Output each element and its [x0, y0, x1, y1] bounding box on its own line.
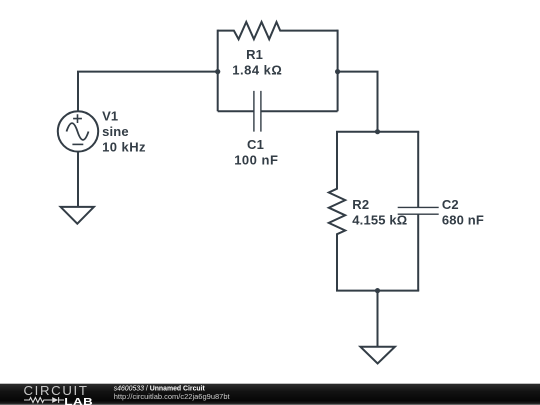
- node D junction dot (bottom of block): [375, 288, 380, 293]
- wire node B to R2/C2 block: [338, 72, 378, 132]
- node C junction dot (top of block): [375, 129, 380, 134]
- CircuitLab logo schematic line with resistor and diode: [24, 397, 64, 403]
- label V1 sine 10 kHz: [102, 109, 146, 155]
- capacitor C1: [218, 91, 338, 132]
- svg-text:C2: C2: [442, 197, 459, 212]
- label C1 100 nF: [234, 137, 278, 167]
- wire left side of R1/C1 block: [217, 30, 219, 112]
- svg-text:LAB: LAB: [64, 395, 93, 405]
- wire V1 minus to ground: [77, 151, 79, 207]
- svg-text:V1: V1: [102, 109, 118, 124]
- node A junction dot (left): [215, 69, 220, 74]
- svg-text:1.84 kΩ: 1.84 kΩ: [232, 63, 282, 78]
- wire top of R2/C2 block: [336, 131, 419, 133]
- capacitor C2: [398, 132, 439, 291]
- svg-text:R1: R1: [246, 47, 263, 62]
- svg-text:10 kHz: 10 kHz: [102, 140, 146, 155]
- resistor R2: [329, 132, 345, 291]
- wire bottom of R2/C2 block: [336, 290, 419, 292]
- wire node D to ground: [377, 291, 379, 347]
- label C2 680 nF: [442, 197, 484, 227]
- wire right side of R1/C1 block: [337, 30, 339, 112]
- ground (left): [61, 207, 94, 224]
- node B junction dot (right): [335, 69, 340, 74]
- svg-text:http://circuitlab.com/c22ja6g9: http://circuitlab.com/c22ja6g9u87bt: [114, 392, 231, 401]
- voltage source V1: [58, 111, 98, 151]
- resistor R1: [218, 22, 338, 39]
- svg-text:C1: C1: [247, 137, 264, 152]
- label R1 1.84 kΩ: [232, 47, 282, 78]
- footer bar: [0, 384, 540, 405]
- svg-text:100 nF: 100 nF: [234, 153, 278, 168]
- wire from V1 plus to node A: [78, 72, 218, 112]
- svg-text:680 nF: 680 nF: [442, 212, 484, 227]
- ground (right): [360, 347, 395, 364]
- label R2 4.155 kΩ: [352, 197, 407, 227]
- svg-text:R2: R2: [352, 197, 369, 212]
- svg-text:sine: sine: [102, 124, 129, 139]
